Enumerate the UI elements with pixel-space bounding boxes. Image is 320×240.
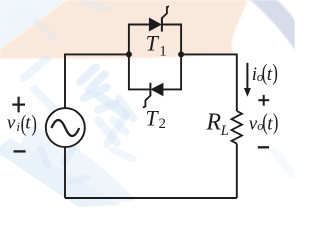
wire resistor bottom [236, 144, 238, 198]
svg-text:R: R [205, 110, 221, 136]
wire bottom [65, 197, 237, 199]
svg-text:1: 1 [159, 44, 167, 60]
wire left rail bottom [64, 147, 66, 198]
svg-text:T: T [146, 31, 160, 56]
svg-text:): ) [31, 111, 37, 136]
ac voltage source Vi [46, 108, 85, 147]
wire node A to T1 anode [129, 25, 149, 55]
label io(t) [252, 61, 278, 86]
wire T2 to node B [163, 54, 181, 89]
label vi(t) [7, 111, 37, 136]
svg-text:v: v [7, 113, 16, 134]
svg-text:): ) [273, 110, 279, 135]
svg-text:L: L [220, 123, 229, 139]
wire left rail top [65, 54, 129, 108]
minus sign vo [258, 146, 269, 148]
thyristor T1 [149, 6, 169, 31]
label vo(t) [249, 110, 279, 135]
svg-text:2: 2 [159, 116, 167, 132]
arrow io [244, 63, 251, 97]
svg-text:): ) [272, 61, 278, 86]
node A junction dot [126, 51, 132, 57]
wire top right [181, 54, 237, 111]
node B junction dot [178, 51, 184, 57]
svg-text:i: i [16, 119, 20, 134]
svg-text:T: T [145, 106, 159, 131]
plus sign vo [258, 95, 269, 106]
wire node A to T2 [129, 54, 151, 89]
svg-text:t: t [25, 113, 31, 134]
wire T1 cathode to node B [162, 25, 181, 55]
plus sign source [12, 97, 25, 113]
minus sign source [14, 150, 26, 152]
resistor RL [232, 111, 243, 144]
thyristor T2 [143, 83, 164, 108]
